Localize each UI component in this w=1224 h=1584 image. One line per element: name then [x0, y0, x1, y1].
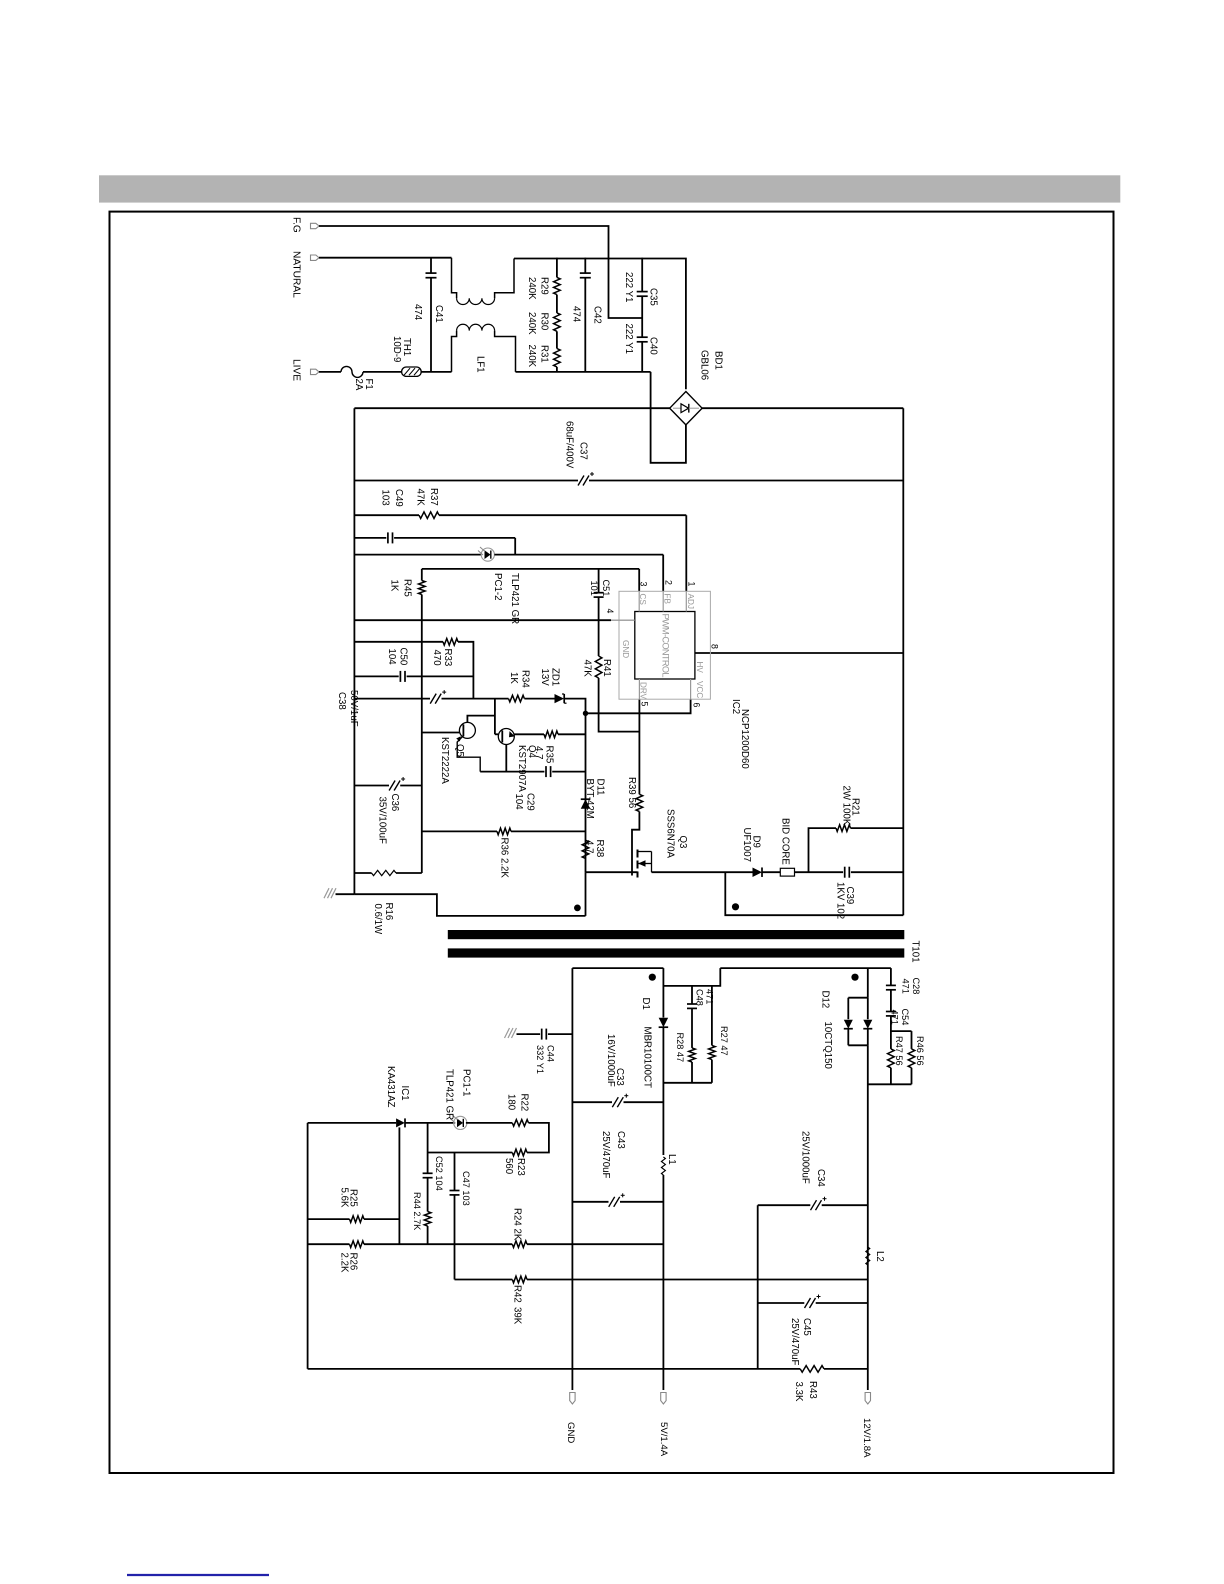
- svg-text:10D-9: 10D-9: [391, 336, 402, 362]
- svg-text:R22: R22: [518, 1094, 529, 1112]
- svg-text:C37: C37: [577, 442, 588, 460]
- svg-text:101: 101: [589, 581, 599, 596]
- svg-text:25V/470uF: 25V/470uF: [789, 1318, 800, 1365]
- svg-text:1KV 102: 1KV 102: [834, 882, 845, 919]
- svg-text:222 Y1: 222 Y1: [623, 272, 634, 303]
- svg-text:C52 104: C52 104: [434, 1156, 444, 1191]
- svg-text:Q5: Q5: [454, 744, 465, 757]
- svg-text:222 Y1: 222 Y1: [623, 324, 634, 355]
- svg-text:R39 56: R39 56: [626, 777, 637, 808]
- svg-text:ADJ: ADJ: [686, 594, 695, 609]
- svg-text:25V/470uF: 25V/470uF: [600, 1131, 611, 1178]
- svg-text:47K: 47K: [414, 489, 425, 507]
- svg-text:PWM-CONTROL: PWM-CONTROL: [660, 614, 670, 678]
- svg-text:13V: 13V: [539, 669, 550, 687]
- svg-text:R31: R31: [538, 345, 549, 363]
- svg-text:471: 471: [889, 1010, 899, 1025]
- svg-text:1K: 1K: [388, 580, 399, 592]
- svg-text:104: 104: [386, 649, 397, 666]
- svg-text:474: 474: [412, 304, 423, 321]
- svg-text:5.6K: 5.6K: [338, 1188, 349, 1208]
- svg-text:TLP421 GR: TLP421 GR: [509, 573, 520, 624]
- svg-text:470: 470: [431, 650, 442, 667]
- svg-text:C43: C43: [615, 1131, 626, 1149]
- svg-text:R37: R37: [428, 488, 439, 506]
- svg-text:4.7: 4.7: [583, 840, 594, 853]
- svg-text:R27 47: R27 47: [719, 1026, 729, 1056]
- svg-text:KST2222A: KST2222A: [439, 737, 450, 784]
- svg-text:0.6/1W: 0.6/1W: [372, 904, 383, 936]
- svg-text:R30: R30: [538, 313, 549, 331]
- svg-text:F.G: F.G: [290, 217, 301, 233]
- svg-text:12V/1.8A: 12V/1.8A: [861, 1418, 872, 1458]
- svg-text:D11: D11: [594, 779, 605, 796]
- svg-text:R44 2.7K: R44 2.7K: [412, 1192, 422, 1231]
- svg-text:KA431AZ: KA431AZ: [385, 1066, 396, 1108]
- svg-text:BID CORE: BID CORE: [779, 818, 790, 865]
- svg-text:Q3: Q3: [677, 836, 688, 849]
- svg-text:LF1: LF1: [474, 356, 485, 373]
- svg-text:C29: C29: [524, 793, 535, 811]
- svg-text:D12: D12: [819, 991, 830, 1009]
- svg-text:SSS6N70A: SSS6N70A: [664, 809, 675, 859]
- svg-text:GBL06: GBL06: [698, 350, 709, 380]
- svg-text:BD1: BD1: [712, 351, 723, 370]
- svg-text:25V/1000uF: 25V/1000uF: [799, 1131, 810, 1184]
- svg-text:1: 1: [686, 582, 696, 587]
- svg-text:180: 180: [505, 1094, 516, 1111]
- svg-text:R28 47: R28 47: [675, 1033, 685, 1063]
- svg-text:2.2K: 2.2K: [338, 1253, 349, 1273]
- svg-text:PC1-1: PC1-1: [460, 1069, 471, 1096]
- svg-text:8: 8: [709, 644, 719, 649]
- svg-text:R23: R23: [515, 1158, 526, 1176]
- svg-text:C50: C50: [397, 648, 408, 666]
- svg-text:C42: C42: [591, 306, 602, 324]
- svg-text:68uF/400V: 68uF/400V: [564, 421, 575, 469]
- svg-text:240K: 240K: [526, 277, 537, 300]
- svg-text:2A: 2A: [353, 379, 364, 391]
- svg-text:103: 103: [379, 490, 390, 506]
- svg-text:5V/1.4A: 5V/1.4A: [658, 1422, 669, 1457]
- svg-text:GND: GND: [621, 640, 630, 658]
- svg-text:C49: C49: [393, 489, 404, 507]
- svg-text:3: 3: [638, 582, 648, 587]
- svg-text:R46 56: R46 56: [915, 1036, 925, 1066]
- svg-text:R33: R33: [442, 649, 453, 667]
- svg-text:NCP1200D60: NCP1200D60: [739, 709, 750, 769]
- svg-text:35V/100uF: 35V/100uF: [376, 797, 387, 844]
- svg-text:LIVE: LIVE: [290, 359, 301, 381]
- svg-text:IC1: IC1: [399, 1086, 410, 1101]
- svg-text:5: 5: [639, 702, 649, 707]
- svg-text:240K: 240K: [526, 345, 537, 368]
- svg-text:R47 56: R47 56: [894, 1036, 904, 1066]
- svg-text:C41: C41: [433, 305, 444, 323]
- svg-text:R43: R43: [807, 1381, 818, 1399]
- svg-text:C35: C35: [647, 288, 658, 306]
- svg-text:D1: D1: [640, 998, 651, 1010]
- svg-text:R34: R34: [519, 670, 530, 688]
- svg-text:4: 4: [605, 609, 615, 614]
- svg-text:474: 474: [570, 306, 581, 323]
- svg-text:332 Y1: 332 Y1: [535, 1045, 545, 1074]
- svg-text:C51: C51: [601, 580, 611, 597]
- svg-text:BYT-42M: BYT-42M: [584, 779, 595, 819]
- svg-text:3.3K: 3.3K: [793, 1382, 804, 1402]
- svg-text:R45: R45: [401, 579, 412, 597]
- svg-text:HV: HV: [695, 662, 704, 674]
- svg-text:471: 471: [704, 989, 714, 1004]
- svg-text:T101: T101: [909, 941, 920, 963]
- svg-text:D9: D9: [750, 836, 761, 848]
- svg-text:2: 2: [663, 580, 673, 585]
- svg-text:C48: C48: [694, 989, 704, 1006]
- svg-text:16V/1000uF: 16V/1000uF: [605, 1034, 616, 1087]
- svg-text:C36: C36: [389, 794, 400, 812]
- svg-text:KST2907A: KST2907A: [516, 745, 527, 792]
- svg-text:2W 100K: 2W 100K: [840, 786, 851, 826]
- svg-text:C39: C39: [844, 887, 855, 905]
- svg-text:ZD1: ZD1: [549, 668, 560, 686]
- svg-text:4.7: 4.7: [533, 746, 544, 759]
- svg-text:TLP421 GR: TLP421 GR: [443, 1069, 454, 1120]
- svg-text:L1: L1: [666, 1154, 677, 1165]
- svg-text:C28: C28: [911, 978, 921, 995]
- svg-text:C34: C34: [815, 1169, 826, 1187]
- svg-text:C47 103: C47 103: [461, 1171, 471, 1206]
- svg-text:C44: C44: [545, 1045, 555, 1062]
- svg-text:240K: 240K: [526, 312, 537, 335]
- svg-text:PC1-2: PC1-2: [492, 573, 503, 600]
- svg-text:GND: GND: [565, 1422, 576, 1443]
- svg-text:C38: C38: [336, 692, 347, 710]
- svg-text:C40: C40: [647, 337, 658, 355]
- svg-text:NATURAL: NATURAL: [290, 251, 301, 298]
- svg-text:R16: R16: [383, 903, 394, 921]
- svg-text:47K: 47K: [581, 660, 592, 678]
- svg-text:R35: R35: [543, 746, 554, 764]
- svg-text:MBR10100CT: MBR10100CT: [641, 1027, 652, 1088]
- svg-text:C54: C54: [900, 1009, 910, 1026]
- svg-text:471: 471: [900, 979, 910, 994]
- svg-text:R42: R42: [511, 1285, 522, 1303]
- svg-text:1K: 1K: [508, 672, 519, 684]
- svg-text:C45: C45: [801, 1318, 812, 1336]
- svg-text:UF1007: UF1007: [741, 828, 752, 862]
- svg-text:VCC: VCC: [695, 681, 704, 698]
- svg-text:6: 6: [691, 703, 701, 708]
- svg-text:R41: R41: [601, 659, 612, 677]
- svg-text:104: 104: [513, 794, 524, 811]
- svg-text:R38: R38: [594, 840, 605, 858]
- svg-text:R36 2.2K: R36 2.2K: [498, 838, 509, 879]
- svg-text:50V/1uF: 50V/1uF: [348, 690, 359, 727]
- svg-text:10CTQ150: 10CTQ150: [822, 1022, 833, 1070]
- svg-text:R29: R29: [538, 277, 549, 295]
- svg-text:560: 560: [503, 1158, 514, 1175]
- svg-text:R24 2K: R24 2K: [511, 1208, 522, 1241]
- svg-text:L2: L2: [874, 1251, 885, 1262]
- svg-text:39K: 39K: [511, 1307, 522, 1325]
